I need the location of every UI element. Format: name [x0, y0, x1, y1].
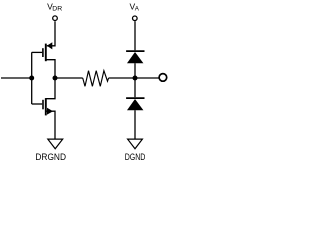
svg-text:A: A [135, 6, 140, 13]
svg-text:DR: DR [52, 6, 62, 13]
svg-text:DGND: DGND [125, 152, 146, 163]
svg-text:DRGND: DRGND [35, 152, 66, 163]
